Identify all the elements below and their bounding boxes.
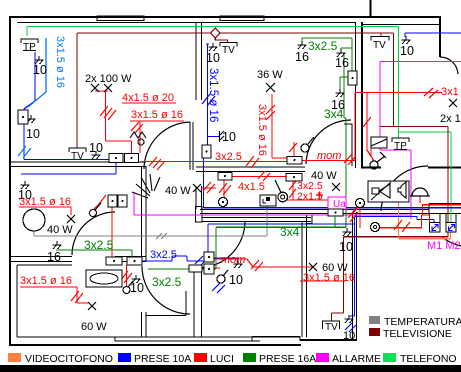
conduit jambs above monitors [430, 214, 457, 223]
thermo sensor right [371, 137, 387, 148]
luci right edge drop [423, 205, 461, 215]
luci room2 lamp leader [19, 207, 71, 215]
hatch r13 bath2 [71, 291, 83, 303]
svg-text:10: 10 [26, 127, 40, 141]
luci main run y161 [142, 161, 287, 163]
presa10 lower mid run [208, 224, 355, 252]
svg-text:4x1.5: 4x1.5 [238, 181, 265, 193]
right outer wall upper [439, 17, 441, 57]
hatch r16 keypad2 [348, 208, 358, 222]
socket under allarme box [328, 209, 343, 216]
socket mid boxA [202, 145, 211, 158]
luci bath lamp drop [126, 265, 128, 286]
luci box2 drop [286, 181, 328, 200]
presa16 corridor run 3x4 [216, 226, 346, 228]
svg-text:TV: TV [222, 45, 235, 56]
ground green2 [337, 49, 346, 57]
videocitofono wire [399, 201, 451, 239]
telefono wire top run [27, 26, 399, 28]
legend televisione [369, 328, 380, 336]
wall bottom mid-right [300, 339, 357, 341]
svg-text:TEMPERATURA: TEMPERATURA [384, 316, 461, 328]
bath top wall left seg [9, 257, 72, 262]
socket room1 left B [125, 154, 139, 163]
presa10 TV2 drop [350, 217, 355, 317]
hatch r7 box2 [219, 183, 231, 195]
TV1 outlet [69, 148, 86, 152]
svg-text:16: 16 [335, 56, 349, 70]
luci hall label underline [300, 280, 345, 282]
hatch r12 bathlamp [120, 271, 132, 283]
tv drop bottom room [332, 237, 344, 321]
ground bath16 [53, 241, 62, 249]
bell [410, 188, 430, 196]
tv right riser [393, 33, 395, 126]
svg-text:10: 10 [343, 330, 355, 342]
allarme corridor run [134, 214, 412, 216]
svg-text:3x4: 3x4 [280, 225, 300, 239]
svg-text:TV: TV [325, 322, 338, 333]
wall horiz y167 midroom bottom [196, 167, 305, 172]
socket bath A [106, 257, 122, 265]
ground stack10 [234, 260, 243, 268]
luci keypad link [360, 207, 430, 228]
svg-text:PRESE 16A: PRESE 16A [259, 353, 316, 365]
M2 monitor [446, 223, 456, 233]
tv antenna feed top run [77, 32, 394, 34]
svg-text:TV: TV [373, 40, 386, 51]
svg-text:10: 10 [33, 63, 47, 77]
TP1 phone outlet [21, 39, 38, 51]
presa10 hatch stacked [195, 256, 208, 266]
svg-text:40 W: 40 W [165, 185, 191, 197]
svg-text:3x2.5: 3x2.5 [215, 151, 242, 163]
presa16 stub3 [340, 77, 348, 90]
ground room2 [21, 181, 30, 189]
wall vert x352 right rooms [353, 212, 357, 340]
lamp cross 60w bath [88, 302, 96, 310]
svg-text:M1 M2: M1 M2 [427, 240, 461, 252]
presa10 right run [355, 217, 435, 223]
luci pushbutton drop [293, 142, 295, 157]
switch box1 midroom [287, 157, 302, 165]
tv bottom run [344, 236, 449, 238]
hatch r11 room2 [99, 195, 106, 204]
tv right down [447, 127, 449, 237]
allarme right riser [380, 62, 411, 220]
ground green3 [336, 89, 345, 97]
wire stub from top edge [370, 0, 372, 16]
ground tv2room upper [343, 228, 352, 236]
socket room2 pair B [118, 195, 127, 207]
svg-text:2x 1: 2x 1 [440, 113, 461, 125]
tv stub to box [379, 127, 381, 138]
luci hatches [71, 88, 438, 303]
luci keypad diag [352, 207, 358, 214]
presa10 hatch tv2 [345, 323, 356, 332]
hatch r6 hall [203, 182, 215, 193]
luci thermo stub [370, 147, 372, 157]
svg-text:TELEVISIONE: TELEVISIONE [383, 328, 452, 340]
luci mom run [302, 160, 355, 162]
luci bath lamp2 [20, 287, 88, 303]
interior wall vert x193 small lower piece [196, 186, 202, 209]
TP2 phone outlet [392, 138, 409, 150]
presa16 drop left [214, 227, 216, 269]
hatch r9 mom [344, 154, 356, 165]
legend telefono [383, 353, 396, 362]
presa16 riser 3x4 [344, 55, 346, 227]
lamp cross 60w hall [309, 263, 317, 271]
presa10 hatch TP riser [18, 146, 31, 158]
luci bell stub [419, 196, 421, 203]
wall vert x141 bath right [142, 166, 147, 262]
switch box hall [218, 173, 232, 181]
luci riser 36W [272, 94, 287, 158]
presa16 top loop [302, 38, 352, 71]
hatch r15 keypad [394, 220, 410, 232]
svg-text:3x1.5 ø 16: 3x1.5 ø 16 [20, 275, 72, 287]
window top 1 [97, 16, 144, 21]
left outer wall [9, 16, 11, 346]
bath inner wall lines [17, 265, 72, 337]
wall piece y315 hall-bath [146, 291, 186, 316]
socket 16A wall [348, 71, 357, 85]
door arc corridor-south [198, 221, 245, 268]
temperatura hatch [156, 233, 167, 239]
presa10 hatch lamp [212, 283, 225, 293]
pulsante tirante room1 [130, 132, 146, 138]
luci hall lamp run [214, 259, 312, 267]
legend prese16 [243, 353, 256, 362]
svg-text:3x1.5 ø 16: 3x1.5 ø 16 [256, 104, 268, 156]
svg-text:TP: TP [394, 141, 407, 152]
tv splitter diamond [211, 28, 220, 38]
telefono drop to M2 [450, 132, 452, 223]
interior wall vert x193 upper [196, 22, 202, 100]
bathtub [86, 270, 122, 287]
wall right top-room piece [344, 124, 353, 166]
videocitofono unit speaker box [368, 181, 409, 202]
presa10 top-right stub [405, 33, 461, 37]
hatch r3 main [149, 157, 165, 170]
svg-text:16: 16 [295, 50, 309, 64]
luci lamp drop hall [223, 180, 225, 197]
switch stack box1 [204, 252, 214, 262]
presa10 riser light-blue [28, 38, 46, 107]
lamp cross room1 a [91, 84, 99, 92]
svg-text:10: 10 [89, 141, 103, 155]
door arc bottom-right corner [443, 238, 461, 246]
wall vert x194 bottom rooms [194, 270, 202, 337]
luci right riser2 [367, 93, 374, 162]
wall horiz y162 rooms left [9, 162, 146, 167]
wall vert x141 lower piece [142, 312, 147, 337]
svg-text:16: 16 [47, 250, 61, 264]
telefono riser right [399, 27, 452, 139]
legend prese10 [118, 353, 131, 362]
svg-text:40 W: 40 W [47, 224, 73, 236]
luci 40w hall tail [201, 187, 216, 189]
lamp point hall1 [219, 198, 228, 207]
hatch r10 right [363, 88, 438, 127]
svg-text:2x1.5: 2x1.5 [297, 191, 323, 203]
allarme sensor drop [133, 192, 135, 215]
presa10 room2 run [21, 163, 116, 174]
socket leftwall box1 [18, 110, 28, 124]
luci switchbox2 run [232, 176, 286, 178]
ground box1 [27, 115, 36, 123]
luci switch drop [139, 121, 141, 153]
svg-text:3x2.5: 3x2.5 [308, 39, 338, 53]
ground midK [220, 131, 225, 142]
door arc top-right [440, 57, 458, 74]
lamp cross 36w [266, 83, 275, 92]
svg-text:10: 10 [206, 51, 220, 65]
svg-text:60 W: 60 W [81, 321, 107, 333]
ground green1 [298, 41, 307, 49]
legend luci [194, 353, 207, 362]
corridor wall slab south [202, 218, 311, 222]
lamp cross right top [449, 99, 457, 107]
corridor slab south right cap [307, 215, 313, 224]
motion sensor burst [132, 174, 160, 198]
presa10 TP drop [24, 52, 110, 160]
legend temperatura [369, 316, 380, 324]
presa10 corridor long run [204, 207, 461, 209]
svg-text:3x2.5: 3x2.5 [150, 249, 177, 261]
hatch r3b main2 [246, 156, 259, 168]
corridor wall slab north [200, 210, 461, 214]
svg-text:LUCI: LUCI [210, 353, 234, 365]
svg-text:ALLARME: ALLARME [332, 353, 381, 365]
svg-text:Ua: Ua [333, 199, 346, 210]
svg-text:VIDEOCITOFONO: VIDEOCITOFONO [25, 353, 113, 365]
presa10 riser mid lower [203, 158, 205, 208]
small box hall lamp [189, 265, 202, 272]
TV3 outlet top-right [371, 37, 389, 41]
buzzer point right [356, 199, 365, 208]
svg-text:TV: TV [71, 151, 84, 162]
door arc midroom [306, 120, 351, 164]
wall vert x302 bottom rooms divider [302, 222, 307, 337]
thermostat hall [260, 195, 276, 206]
ground topright [402, 36, 411, 44]
luci right-top run [355, 93, 442, 161]
luci room1 label leader 3x1.5 [130, 120, 184, 122]
lamp cross room1 b [104, 84, 112, 92]
pushbutton right room [370, 161, 378, 169]
allarme top-right run [380, 61, 461, 63]
socket room2 pair A [108, 195, 117, 207]
door arc room1 [144, 122, 190, 169]
svg-text:mom: mom [221, 254, 245, 266]
interior wall vert x355 upper [355, 22, 357, 168]
tv stub TV3 [380, 33, 382, 37]
ground TP1 [35, 56, 44, 64]
svg-text:TELEFONO: TELEFONO [400, 353, 457, 365]
switch box2 midroom [286, 174, 302, 182]
tv drop to TV4 [215, 38, 227, 43]
svg-text:4x1.5 ø 20: 4x1.5 ø 20 [122, 92, 174, 104]
allarme keypad box [328, 197, 346, 209]
pushbutton 36w [301, 144, 309, 152]
bath lamp point [123, 287, 130, 294]
hatch r8 labels [258, 171, 323, 199]
presa16 bath run [56, 250, 132, 257]
svg-text:3x1.5 ø 16: 3x1.5 ø 16 [54, 36, 66, 88]
legend allarme [316, 353, 329, 362]
wall bottom inner line [17, 336, 300, 338]
hatch r1 [100, 106, 116, 120]
presa10 riser mid (3x1.5) [207, 44, 209, 145]
presa10 hatch mid riser [202, 94, 215, 106]
hatch r2 [131, 122, 143, 133]
svg-text:3x2.5: 3x2.5 [84, 238, 114, 252]
lamp circle room2 [23, 209, 45, 231]
svg-text:TP: TP [23, 42, 36, 53]
presa10 stacked box link [214, 258, 238, 261]
luci room1 lamp pair feed [95, 91, 132, 153]
wall band right rooms [429, 204, 461, 214]
M1 monitor [430, 223, 441, 233]
ground bath10 [132, 275, 141, 283]
svg-text:3x4: 3x4 [324, 107, 344, 121]
svg-text:3x2.5: 3x2.5 [152, 275, 182, 289]
tv drop to TV1 [76, 33, 78, 148]
switch circle room2 [90, 210, 97, 217]
svg-text:3x1.5 ø 16: 3x1.5 ø 16 [19, 196, 71, 208]
wall y167 right segment [361, 167, 381, 169]
bath top wall right seg [115, 257, 146, 262]
socket bath B [127, 257, 142, 265]
ground tv2room lower [345, 315, 354, 323]
svg-text:mom: mom [317, 150, 341, 162]
svg-text:36 W: 36 W [257, 69, 283, 81]
window top 2 [220, 16, 264, 21]
bottom black bar [0, 365, 461, 372]
hatch r14 hall-lamp [251, 260, 263, 271]
tv top-right run [380, 126, 448, 128]
svg-text:3x1.5 ø 16: 3x1.5 ø 16 [207, 68, 219, 122]
lamp point hall2 [278, 192, 288, 202]
hall lamp point low [217, 275, 225, 283]
luci room1 label leader 4x1.5 [122, 102, 176, 104]
svg-text:3x1.5 ø 16: 3x1.5 ø 16 [303, 272, 355, 284]
ground midtop [209, 43, 218, 51]
hatch r5 pushbtn [289, 143, 297, 152]
svg-text:10: 10 [400, 44, 414, 58]
temperatura wire [34, 206, 267, 236]
luci stack stub [214, 267, 220, 269]
svg-text:PRESE 10A: PRESE 10A [134, 353, 191, 365]
presa10 bath zigzag [142, 256, 204, 261]
ground TV1 [92, 151, 101, 159]
presa16 hall run [148, 268, 216, 270]
luci boxes room2 [93, 202, 101, 210]
wall y167 far right segment [428, 167, 461, 169]
bottom wall left window detail [115, 337, 260, 341]
lamp cross 40w room2 [67, 215, 75, 223]
door arc bath-hall [142, 266, 190, 314]
outer top wall [9, 16, 441, 18]
lamp cross 40w hall [193, 184, 201, 192]
wall bottom outer left [9, 344, 301, 346]
bottom wall window detail [252, 337, 300, 342]
presa16 stub to box [334, 216, 336, 227]
svg-text:10: 10 [222, 130, 236, 144]
TV4 outlet mid [220, 43, 237, 47]
presa16 stub2 [341, 48, 352, 50]
switch stack box2 [204, 264, 214, 274]
keypad point right [371, 223, 380, 232]
door arc room2-bath [72, 212, 115, 255]
hatch r4 riser36 [266, 105, 275, 120]
lamp cross 40w right [332, 183, 340, 191]
door leaf room1 [190, 122, 193, 170]
svg-text:10: 10 [339, 240, 353, 254]
svg-text:3x1.5 ø 16: 3x1.5 ø 16 [131, 109, 183, 121]
svg-text:10: 10 [229, 273, 243, 287]
svg-text:2x 100 W: 2x 100 W [85, 73, 132, 85]
TV2 outlet bottom [323, 321, 340, 329]
door arc right-mid [381, 166, 428, 211]
svg-text:3x1: 3x1 [441, 86, 459, 98]
svg-text:10: 10 [130, 281, 144, 295]
telefono drop to TP1 [26, 27, 28, 37]
presa10 K spur [208, 136, 220, 138]
luci bath feed [111, 207, 113, 257]
socket room1 left A [109, 154, 123, 163]
inner top wall line [17, 22, 355, 24]
legend videocitofono [8, 353, 21, 362]
corridor slab left cap [196, 207, 203, 223]
